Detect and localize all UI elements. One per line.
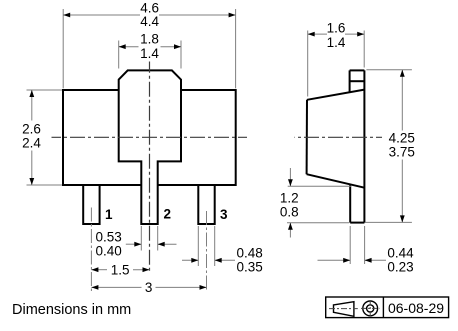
svg-text:0.23: 0.23	[387, 260, 413, 275]
svg-text:4.4: 4.4	[140, 14, 159, 29]
svg-text:1.8: 1.8	[140, 31, 159, 46]
svg-text:2.6: 2.6	[22, 122, 41, 137]
svg-text:1.5: 1.5	[111, 262, 130, 277]
svg-text:1.6: 1.6	[327, 21, 346, 36]
svg-text:1.2: 1.2	[280, 191, 299, 206]
svg-text:4.25: 4.25	[389, 130, 415, 145]
svg-text:1.4: 1.4	[140, 46, 159, 61]
svg-text:0.53: 0.53	[96, 229, 122, 244]
svg-text:0.44: 0.44	[387, 246, 414, 261]
svg-text:Dimensions in mm: Dimensions in mm	[12, 302, 131, 318]
svg-text:2: 2	[164, 207, 172, 222]
svg-text:0.40: 0.40	[96, 243, 122, 258]
svg-text:0.8: 0.8	[280, 205, 299, 220]
svg-text:3: 3	[145, 280, 153, 295]
svg-text:0.35: 0.35	[237, 260, 263, 275]
svg-text:3: 3	[220, 207, 228, 222]
svg-text:0.48: 0.48	[237, 246, 263, 261]
svg-text:1.4: 1.4	[327, 35, 346, 50]
svg-text:1: 1	[105, 207, 113, 222]
svg-text:3.75: 3.75	[389, 144, 415, 159]
svg-text:06-08-29: 06-08-29	[388, 300, 444, 316]
svg-text:2.4: 2.4	[22, 136, 41, 151]
svg-text:4.6: 4.6	[140, 0, 159, 15]
